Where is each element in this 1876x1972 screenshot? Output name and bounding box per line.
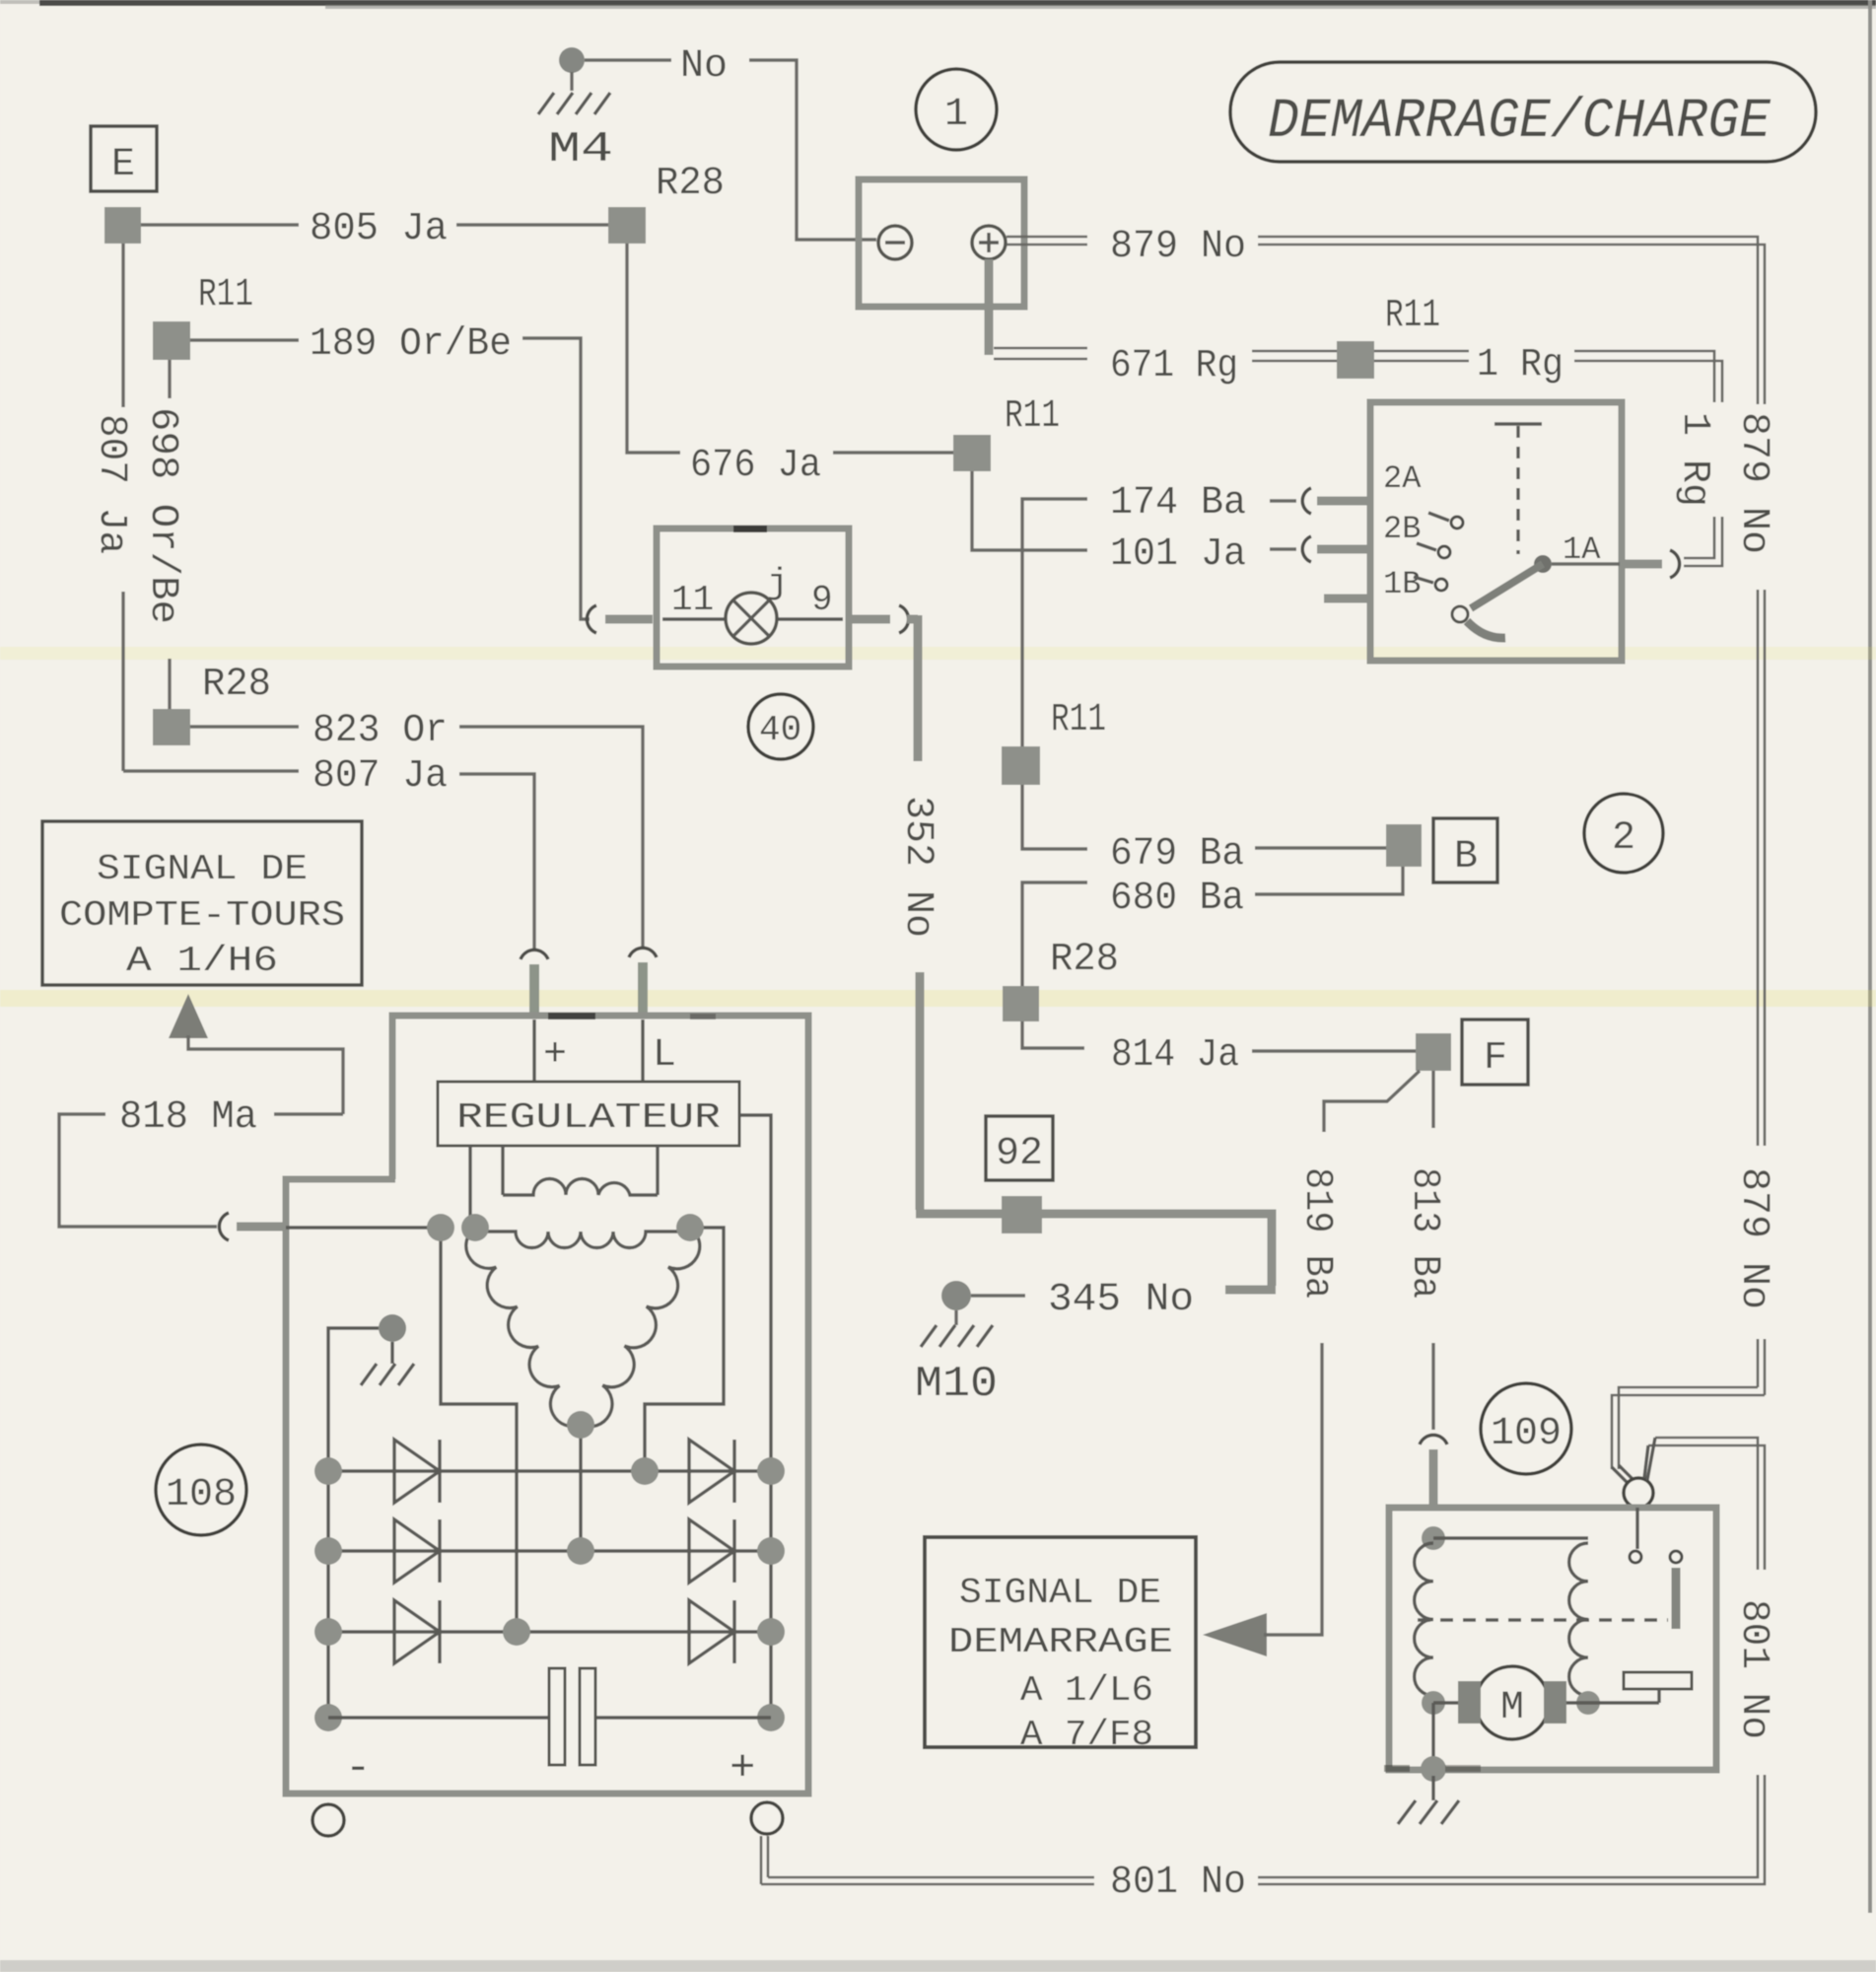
svg-text:813 Ba: 813 Ba [1402, 1167, 1446, 1299]
svg-text:R28: R28 [202, 663, 271, 707]
alternator 108 outline [286, 1016, 808, 1794]
svg-text:679 Ba: 679 Ba [1110, 832, 1244, 877]
diode D4 [689, 1440, 734, 1503]
output terminal minus [313, 1804, 344, 1836]
internal ground [379, 1314, 406, 1342]
svg-text:L: L [653, 1033, 676, 1078]
connector pin R28 lower [153, 709, 190, 745]
svg-text:REGULATEUR: REGULATEUR [456, 1097, 721, 1138]
wire 1 Rg down to switch [1684, 517, 1722, 566]
connector pin E [104, 207, 141, 244]
svg-text:DEMARRAGE/CHARGE: DEMARRAGE/CHARGE [1268, 91, 1772, 154]
wire 879 No into solenoid [1612, 1387, 1765, 1469]
svg-text:92: 92 [996, 1132, 1043, 1176]
diode D2 [394, 1519, 440, 1583]
svg-text:11: 11 [671, 580, 714, 620]
connector 92 [986, 1116, 1053, 1180]
starter motor 109 box [1389, 1508, 1716, 1770]
wire 819 Ba lower [1264, 1343, 1322, 1635]
wire 813 Ba lower to starter [1431, 1343, 1434, 1430]
svg-text:-: - [345, 1744, 371, 1794]
wire 814 Ja [1022, 1021, 1084, 1048]
svg-text:801 No: 801 No [1110, 1861, 1246, 1905]
connector pin R11 [153, 321, 190, 360]
svg-text:1 Rg: 1 Rg [1477, 343, 1563, 387]
svg-text:189 Or/Be: 189 Or/Be [310, 322, 512, 367]
wire 805 Ja [141, 223, 299, 226]
svg-text:DEMARRAGE: DEMARRAGE [948, 1622, 1173, 1662]
regulator right wire to + bus [739, 1115, 771, 1467]
bridge row 3 [328, 1630, 771, 1633]
wire 879 No right edge upper segment [1758, 590, 1765, 1146]
note box SIGNAL DE DEMARRAGE [925, 1537, 1196, 1747]
item number 108 [156, 1444, 246, 1535]
delta node wires [441, 1228, 517, 1632]
svg-text:1: 1 [944, 93, 968, 137]
battery plus stub down [985, 259, 994, 355]
svg-text:1B: 1B [1383, 566, 1421, 602]
bridge row 2 [328, 1549, 771, 1552]
stator delta winding [475, 1232, 690, 1248]
wire No to battery minus [749, 60, 876, 240]
svg-text:2B: 2B [1383, 511, 1421, 547]
arrow to compte-tours [169, 994, 208, 1038]
battery 1 [859, 179, 1024, 307]
wire 189 to lamp connector [587, 605, 596, 633]
wire 676 Ja [627, 244, 680, 453]
wire M4 to node No [585, 58, 671, 61]
svg-text:F: F [1484, 1036, 1507, 1081]
wire 101 Ja [1022, 548, 1087, 551]
switch lever [1534, 555, 1552, 573]
wire 813 Ba upper [1431, 1071, 1434, 1128]
lamp output connector [849, 615, 890, 624]
svg-text:879 No: 879 No [1731, 412, 1775, 554]
svg-text:818 Ma: 818 Ma [119, 1095, 257, 1140]
wire E down [121, 244, 124, 407]
svg-text:345 No: 345 No [1048, 1278, 1194, 1322]
bridge row 1 [328, 1469, 771, 1472]
solenoid contact left [1630, 1551, 1641, 1563]
svg-text:805 Ja: 805 Ja [310, 207, 448, 251]
connector pin R11 [953, 435, 991, 471]
solenoid contact right [1670, 1551, 1682, 1563]
wire 679 Ba [1022, 785, 1087, 849]
diode D3 [394, 1600, 440, 1663]
svg-text:671 Rg: 671 Rg [1110, 344, 1238, 388]
wire 680 Ba [1022, 882, 1087, 986]
alternator terminal + connector [521, 950, 548, 959]
wire 345 No [971, 1294, 1025, 1297]
svg-text:174 Ba: 174 Ba [1110, 481, 1246, 526]
solenoid terminal [1624, 1478, 1653, 1508]
wire 352 No [907, 615, 918, 761]
note box SIGNAL DE COMPTE-TOURS [42, 821, 362, 985]
svg-text:676 Ja: 676 Ja [690, 444, 821, 488]
svg-text:M4: M4 [548, 125, 613, 175]
svg-text:108: 108 [166, 1473, 237, 1517]
svg-text:879 No: 879 No [1731, 1167, 1775, 1309]
svg-text:R11: R11 [1051, 698, 1106, 742]
svg-text:M10: M10 [915, 1360, 998, 1409]
svg-text:9: 9 [811, 580, 833, 620]
connector E [91, 126, 157, 191]
svg-text:2A: 2A [1383, 460, 1422, 497]
svg-text:R11: R11 [198, 273, 253, 317]
wire 1 Rg [1374, 351, 1469, 361]
svg-text:823 Or: 823 Or [313, 709, 448, 753]
svg-text:819 Ba: 819 Ba [1294, 1167, 1339, 1299]
capacitor C [549, 1668, 565, 1765]
starter series coil [1415, 1543, 1433, 1696]
svg-text:A 7/F8: A 7/F8 [1020, 1715, 1153, 1755]
svg-text:R28: R28 [656, 162, 725, 206]
dashed actuator link [1418, 1618, 1668, 1621]
svg-text:40: 40 [759, 710, 801, 750]
left minus bus [326, 1471, 329, 1718]
wire 807 Ja [123, 769, 299, 772]
connector B [1433, 818, 1497, 882]
wire 671 Rg from battery [994, 348, 1087, 359]
diode D5 [689, 1519, 734, 1583]
svg-text:A 1/H6: A 1/H6 [126, 941, 278, 981]
svg-text:680 Ba: 680 Ba [1110, 877, 1244, 921]
terminal 1B [1324, 595, 1368, 603]
regulator box [438, 1082, 739, 1146]
connector pin 92 [1002, 1196, 1042, 1233]
item number 109 [1481, 1383, 1571, 1474]
svg-text:SIGNAL DE: SIGNAL DE [959, 1573, 1161, 1613]
key shaft dashed [1494, 422, 1542, 425]
svg-text:M: M [1500, 1686, 1524, 1730]
output terminal plus [751, 1802, 783, 1834]
wire 879/801 No right edge jog [1648, 1438, 1765, 1570]
wire R11 stub down [168, 360, 171, 398]
svg-text:R11: R11 [1385, 294, 1440, 338]
connector pin R28 [608, 207, 646, 244]
svg-text:j: j [767, 563, 789, 603]
arrow signal de demarrage [1203, 1613, 1267, 1656]
svg-text:A 1/L6: A 1/L6 [1020, 1670, 1153, 1711]
svg-text:807 Ja: 807 Ja [89, 414, 133, 554]
svg-text:352 No: 352 No [895, 796, 939, 938]
svg-text:No: No [680, 44, 728, 89]
switch contacts [1451, 517, 1463, 528]
wire down to R11 pin [1020, 550, 1023, 746]
junction dots [427, 1214, 454, 1241]
+ terminal lead [532, 1020, 535, 1082]
svg-text:R28: R28 [1050, 938, 1119, 982]
wire 818 Ma into alternator [286, 1226, 441, 1229]
item number 2 [1584, 794, 1663, 873]
lamp symbol [662, 617, 843, 620]
wire 801 No right edge lower [1258, 1775, 1765, 1884]
title box DEMARRAGE/CHARGE [1230, 62, 1816, 162]
capacitor row [328, 1716, 771, 1719]
wire 174 Ba [1022, 499, 1087, 550]
svg-text:698 Or/Be: 698 Or/Be [140, 407, 184, 624]
svg-text:807 Ja: 807 Ja [313, 754, 448, 799]
wire 823 Or [190, 725, 299, 728]
connector F [1462, 1020, 1528, 1085]
svg-text:101 Ja: 101 Ja [1110, 532, 1246, 577]
wire 879 No from battery [1007, 237, 1087, 245]
svg-text:E: E [111, 143, 135, 187]
terminal 2A [1270, 499, 1296, 502]
field winding junction [1422, 1526, 1445, 1550]
wire to 174/101 junction [972, 471, 1022, 550]
connector pin B [1386, 824, 1422, 867]
starter ground wire [1431, 1703, 1434, 1769]
regulator left lead [468, 1146, 471, 1221]
field winding [503, 1146, 658, 1195]
contact plate [1624, 1672, 1692, 1689]
connector pin F [1416, 1033, 1451, 1071]
wire 819 Ba upper [1324, 1071, 1420, 1132]
motor M [1476, 1666, 1549, 1739]
diode D1 [394, 1440, 440, 1503]
wire 189 Or/Be [190, 338, 299, 341]
svg-text:+: + [730, 1744, 755, 1794]
svg-text:879 No: 879 No [1110, 225, 1246, 269]
svg-text:109: 109 [1491, 1412, 1562, 1456]
svg-text:801 No: 801 No [1731, 1599, 1775, 1739]
ignition switch 2 [1370, 402, 1622, 661]
starter shunt coil [1569, 1543, 1588, 1696]
svg-text:2: 2 [1612, 816, 1635, 861]
svg-text:1 Rg: 1 Rg [1672, 412, 1716, 507]
L terminal lead [641, 1020, 644, 1082]
alternator terminal L connector [629, 948, 657, 957]
ground M4 [559, 47, 585, 73]
ground M10 [941, 1281, 971, 1310]
svg-text:R11: R11 [1005, 394, 1060, 439]
bridge junction dots [314, 1457, 342, 1485]
wire 818 Ma [274, 1112, 343, 1115]
svg-text:814 Ja: 814 Ja [1111, 1033, 1239, 1078]
ground starter [1431, 1776, 1434, 1800]
connector pin R11 [1002, 746, 1040, 785]
svg-text:SIGNAL DE: SIGNAL DE [97, 849, 308, 889]
terminal 2B [1270, 547, 1296, 550]
warning lamp module 40 [657, 528, 849, 667]
connector pin R11 [1337, 341, 1374, 379]
diode D6 [689, 1600, 734, 1663]
item number 40 [748, 694, 813, 759]
svg-text:+: + [543, 1033, 567, 1078]
svg-text:B: B [1454, 835, 1478, 880]
solenoid stem into starter [1635, 1508, 1638, 1549]
solenoid plunger bar [1672, 1568, 1681, 1629]
item number 1 [916, 69, 997, 150]
connector pin R28 [1003, 986, 1039, 1021]
right plus bus [769, 1467, 772, 1718]
svg-text:COMPTE-TOURS: COMPTE-TOURS [59, 895, 345, 936]
